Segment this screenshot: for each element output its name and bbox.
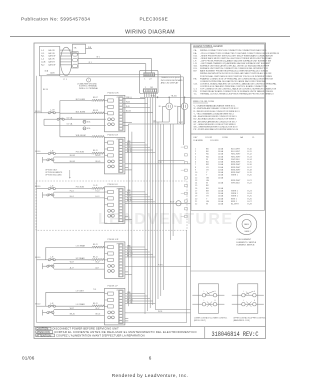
wire lower oven feed [44,124,106,126]
terminal pad 3 [73,64,78,67]
svg-text:ATTENTION:: ATTENTION: [36,333,52,337]
svg-text:14GA: 14GA [218,197,224,200]
relay contacts crossed circles [108,265,111,268]
svg-text:BK 45: BK 45 [127,151,132,153]
svg-text:-07: -07 [149,79,152,81]
svg-text:BAKE: BAKE [244,223,250,226]
svg-text:BK 24: BK 24 [127,302,132,304]
lamp return bus lower [128,123,184,125]
svg-text:BU - BLUE/AZUL/BLEU CONDUCTOR: BU - BLUE/AZUL/BLEU CONDUCTOR WIRE 6 [194,118,237,121]
connector P1 pin list box [39,46,59,75]
lamp feed leads [168,97,170,103]
svg-text:Publication No: 5995457834: Publication No: 5995457834 [21,17,90,22]
oven lamp DL2 [181,103,188,110]
surface switch lower [47,265,49,267]
junction dot lamp 2 tap [184,97,185,98]
svg-text:14GA: 14GA [218,148,224,151]
wire CA N rail [47,74,181,76]
wire CA R rail [60,76,184,78]
svg-text:C.B.: C.B. [194,83,198,85]
svg-text:CORTAR EL CORIENTE ANTES DE RE: CORTAR EL CORIENTE ANTES DE REALIZAR EL … [54,330,197,334]
rail down right 1 [179,75,181,125]
svg-text:14GA: 14GA [218,189,224,192]
relay contacts crossed circles [108,209,111,212]
svg-text:F.A.: F.A. [194,52,198,55]
svg-text:BK 27: BK 27 [127,255,132,257]
svg-text:WIRING CONNECTOR-PLUG CONNECTI: WIRING CONNECTOR-PLUG CONNECTION CONNECT… [200,49,267,52]
svg-text:12GA: 12GA [218,158,224,161]
diagram outer border [34,43,266,339]
svg-text:THERMAL CUTOUT-TERMICO-RUPTEUR: THERMAL CUTOUT-TERMICO-RUPTEUR THERMIQUE… [200,93,274,96]
header rule [10,36,290,38]
svg-text:P24 BK U.R: P24 BK U.R [108,239,119,241]
svg-text:T-11: T-11 [93,289,96,291]
svg-text:CO CA: CO CA [67,116,73,119]
svg-text:BK-10: BK-10 [35,111,40,113]
caution box divider [204,327,206,339]
svg-text:ATENCION:: ATENCION: [36,330,50,334]
svg-text:W 1: W 1 [97,57,100,59]
grounding lug G1 [83,120,86,123]
svg-text:WIRE 1: WIRE 1 [231,175,239,177]
svg-text:COLOR: COLOR [205,137,213,139]
relay contacts crossed circles [108,311,111,314]
svg-text:BU-45: BU-45 [126,111,131,113]
svg-text:WIRE & CU TERMINAL: WIRE & CU TERMINAL [79,87,98,90]
machine ground symbol T [87,78,91,82]
svg-text:L.R. REAR: L.R. REAR [76,244,86,247]
svg-text:SURFACE UNIT INDICATOR LIGHT-A: SURFACE UNIT INDICATOR LIGHT-ALL UNITS L… [200,65,270,68]
svg-text:E-LO: E-LO [96,196,101,198]
svg-text:P24 BU L.R: P24 BU L.R [108,135,119,137]
wire pin row [60,58,72,60]
surface switch lower [47,312,49,314]
svg-text:BK-10: BK-10 [35,151,40,153]
svg-text:14GA: 14GA [218,150,224,153]
svg-text:6: 6 [149,356,152,361]
svg-text:- LEFT REAR-TRASERO IZQ-ARRIER: - LEFT REAR-TRASERO IZQ-ARRIERE GAUCHE S… [200,62,271,65]
svg-text:FRAMING CONNECTION OF PRINCIPA: FRAMING CONNECTION OF PRINCIPAL DE CONEX… [200,77,274,80]
svg-text:W: W [206,204,208,206]
svg-text:14GA: 14GA [218,187,224,190]
svg-text:TB-100: TB-100 [171,95,177,97]
svg-text:318046814 REV:C: 318046814 REV:C [212,331,259,339]
wire pin row [60,61,72,63]
svg-text:BK-11: BK-11 [93,150,98,152]
svg-text:W-17: W-17 [96,262,100,264]
svg-text:OPTION INCLUDED: OPTION INCLUDED [45,174,62,176]
relay contacts crossed circles [108,160,111,163]
svg-text:L-OV: L-OV [50,110,55,112]
svg-text:T.B.: T.B. [74,47,78,49]
wire TB-2 to EOC pin [78,58,152,60]
svg-text:CA N W: CA N W [48,55,55,58]
svg-text:B.P.: B.P. [194,71,198,73]
svg-text:H: H [254,291,255,293]
wire color code box [191,98,265,134]
rail down right 2 [182,77,184,145]
convection motor M1 double circle [236,214,256,234]
terminal pad strip [72,52,79,69]
grounding lug G2 [83,127,86,130]
upper oven door switch contacts detail box S2 [238,284,258,314]
surface switch lower [47,194,49,196]
terminal strip column [185,146,188,148]
wire pin row [60,49,72,51]
feed rail top [40,76,42,113]
svg-text:14GA: 14GA [218,182,224,185]
svg-text:BK-45: BK-45 [70,314,75,316]
svg-text:A-17: A-17 [96,266,100,269]
wire pin row [60,64,72,66]
svg-text:CODE: CODE [222,137,228,139]
svg-text:BL-WHT: BL-WHT [231,204,239,206]
svg-text:CA N R: CA N R [48,61,55,64]
wire long run [125,312,191,314]
svg-text:14GA: 14GA [218,171,224,174]
svg-text:(BAKE/BROIL CON): (BAKE/BROIL CON) [233,319,250,322]
svg-text:Y - YELLOW/AMARILLO/JAUNE WIR: Y - YELLOW/AMARILLO/JAUNE WIRE NO.4 [194,112,235,115]
wire rail 155 turn to right [155,309,190,311]
svg-text:W-17: W-17 [70,308,74,310]
svg-text:P.R. RUN: P.R. RUN [76,187,85,189]
svg-text:OL L: OL L [174,106,178,108]
lower oven door switch contacts detail box S1 [198,284,218,314]
terminal block assembly box [73,44,86,54]
svg-text:V - ORANGE/NARANJA/ORANGE WIR: V - ORANGE/NARANJA/ORANGE WIRE NO.1 [194,105,237,108]
svg-text:BK-11: BK-11 [93,303,98,305]
left rail pair [127,124,129,306]
svg-text:CONEXION PRINCIPAL DEL BASTIDO: CONEXION PRINCIPAL DEL BASTIDOR CADRE RA… [200,80,267,83]
EOC bottom connector strip [143,89,157,93]
switch detail section divider [191,270,266,272]
svg-text:BK-11: BK-11 [93,244,98,246]
svg-text:W-17: W-17 [70,262,74,264]
relay board 1 wiring [123,98,145,100]
svg-text:LOWER CONTACTS-LOWER CONTROL: LOWER CONTACTS-LOWER CONTROL [194,317,227,320]
svg-text:12GA: 12GA [218,161,224,164]
svg-text:COLORS: COLORS [210,140,219,142]
svg-text:CL-11: CL-11 [93,185,98,187]
svg-text:POSITION-ALL SWITCHES IN OFF P: POSITION-ALL SWITCHES IN OFF POSITION TO… [200,75,272,78]
svg-text:- RISER FROM FRONT SWITCH-LIGH: - RISER FROM FRONT SWITCH-LIGHT SW-UP RI… [200,54,273,57]
lamp return bus upper [153,121,169,123]
svg-text:- RISER RACK MICRO SWITCH-LIGH: - RISER RACK MICRO SWITCH-LIGHT SW-UT RI… [200,57,272,60]
svg-text:COUPEZ L'ALIMENTATION AVANT D': COUPEZ L'ALIMENTATION AVANT D'EFFECTUER … [56,333,145,337]
legend box [191,44,265,98]
svg-text:DISCONNECT POWER BEFORE SERVIC: DISCONNECT POWER BEFORE SERVICING UNIT [53,327,120,331]
oven door switch [57,118,59,120]
svg-text:CA N W: CA N W [48,64,55,67]
svg-text:101: 101 [150,87,153,89]
svg-text:A-17: A-17 [70,266,74,269]
svg-text:CA N: CA N [50,72,55,75]
svg-text:SURFACE UNIT SWITCH CONNECTION: SURFACE UNIT SWITCH CONNECTION CONEXION … [200,67,268,70]
svg-text:CAUTION:: CAUTION: [36,327,49,331]
svg-text:14GA: 14GA [218,174,224,177]
svg-text:1: 1 [145,87,146,89]
svg-text:1: 1 [144,79,145,81]
svg-text:WIRING DIAGRAM: WIRING DIAGRAM [125,30,175,36]
svg-text:P-LO: P-LO [70,190,75,192]
svg-text:P24 BU U.R: P24 BU U.R [108,93,119,95]
lower double oven section box bottom [37,322,187,324]
surface switch lower [47,159,49,161]
relay board 3 wiring [125,191,145,193]
wire crossing to terminal strip [158,160,185,162]
svg-text:POWER RELAY BOARD CONNECTION O: POWER RELAY BOARD CONNECTION OF SURFACE … [200,90,274,93]
svg-text:01/06: 01/06 [22,356,35,361]
left feed rail L1 [36,76,38,323]
svg-text:H: H [214,300,215,302]
svg-text:H: H [214,291,215,293]
lamp side drop DL2 [178,105,182,107]
svg-text:L2-B: L2-B [41,62,46,64]
right column divider [190,43,192,327]
svg-text:BR-18: BR-18 [93,110,98,112]
svg-text:Rendered by LeadVenture, Inc.: Rendered by LeadVenture, Inc. [112,373,189,379]
svg-text:BAKE 2: BAKE 2 [245,230,251,233]
svg-text:PR - PURPLE/MORADO/POURPRE WI: PR - PURPLE/MORADO/POURPRE WIRE NO.10 [194,128,240,131]
wire rail bundle [144,97,146,314]
svg-text:AND LED DISPLAY: AND LED DISPLAY [161,81,179,84]
svg-text:WHT-BLK: WHT-BLK [231,183,241,185]
svg-text:BK-10: BK-10 [35,186,40,188]
relay board 2 wiring [125,142,145,144]
svg-text:14GA: 14GA [218,195,224,198]
svg-text:BK 10: BK 10 [43,89,48,91]
wire long run [125,202,191,204]
svg-text:GY - GRAY/GRIS/GRIS CONDUCTOR: GY - GRAY/GRIS/GRIS CONDUCTOR WIRE 8 [194,123,237,126]
svg-text:T.C.: T.C. [194,94,198,96]
svg-text:CA 4 R: CA 4 R [48,58,55,61]
lower double oven section box right edge [186,230,188,322]
svg-text:BK - BLACK/NEGRO/NOIR CONDUCT: BK - BLACK/NEGRO/NOIR CONDUCTOR NO.5 [194,115,238,118]
svg-text:BU-45: BU-45 [70,155,75,157]
svg-text:PLEC30S9E: PLEC30S9E [140,17,169,22]
svg-text:UPPER CONTACTS-UPPER CONTROL: UPPER CONTACTS-UPPER CONTROL [233,317,266,320]
svg-text:W-45: W-45 [126,102,130,104]
svg-text:L.F. UNIT: L.F. UNIT [76,290,85,292]
lamp side drop DL1 [163,105,166,107]
wire long run [125,163,191,165]
svg-text:P24 BK L.F: P24 BK L.F [108,286,119,288]
svg-text:B L: B L [159,106,162,108]
oven lamp DL1 [166,103,173,110]
svg-text:WIRING SHOWN WITH DOOR IN CLOS: WIRING SHOWN WITH DOOR IN CLOSED-LATCHED… [200,72,272,75]
wire long run [125,265,191,267]
svg-text:E-LO: E-LO [70,196,75,198]
svg-text:P-LO: P-LO [96,190,101,192]
svg-text:CONTROL BOARD-TABLERO DE CONTR: CONTROL BOARD-TABLERO DE CONTROL-TABLEAU… [200,82,277,85]
svg-text:R-45: R-45 [126,106,130,108]
svg-text:BU-45: BU-45 [96,155,101,157]
wire TB-3 to EOC pin [78,63,146,65]
svg-text:P 271: P 271 [158,265,163,267]
svg-text:14GA: 14GA [218,203,224,206]
rail bundle from EOC [144,93,146,98]
electronic oven control EOC box [140,70,159,93]
wire from terminal box right [86,48,93,50]
svg-text:W-17: W-17 [96,308,100,310]
svg-text:10GA: 10GA [218,166,224,169]
lamp bottom leads [168,110,170,122]
junction dot lamp 1 tap [169,97,170,98]
relay board 4 wiring [125,246,145,248]
svg-text:COIL ELEMENT: COIL ELEMENT [237,239,252,241]
svg-text:BK-10: BK-10 [35,304,40,306]
svg-text:W - WHITE/BLANCO/BLANC CONDUC: W - WHITE/BLANCO/BLANC CONDUCTOR NO.2 [194,107,240,110]
relay board 5 wiring [125,293,145,295]
svg-text:W 24: W 24 [158,311,162,313]
svg-text:BAKE ELEMENT PROBE RECEPTACLE-: BAKE ELEMENT PROBE RECEPTACLE-LOWER RECE… [200,70,268,73]
svg-text:M.G.: M.G. [87,122,91,124]
svg-text:CO CA: CO CA [67,123,73,126]
svg-text:P24 BU L.F: P24 BU L.F [108,184,119,186]
svg-text:BR-17: BR-17 [93,97,98,99]
svg-text:L.F. REAR: L.F. REAR [76,303,85,306]
svg-text:INCLUDES KEYBOARD: INCLUDES KEYBOARD [161,79,183,82]
parts table box [191,134,265,210]
wire pin row [60,55,72,57]
option dashed box [36,181,187,230]
svg-text:BU-45: BU-45 [96,161,101,163]
EOC top connector strip [144,73,155,77]
svg-text:BK-45: BK-45 [96,314,101,316]
caution box top rule [34,326,266,328]
junction dot [157,97,158,98]
svg-text:W 74: W 74 [151,95,155,97]
svg-text:UP. REAR: UP. REAR [76,257,85,260]
svg-text:FLA WIRE: FLA WIRE [194,139,204,142]
svg-text:P.R. RUN: P.R. RUN [76,152,85,154]
terminal pad 1 [73,53,78,56]
svg-text:F.B.: F.B. [194,78,198,80]
svg-text:KEY: KEY [194,137,199,139]
terminal pad 2 [73,58,78,61]
svg-text:14GA: 14GA [218,192,224,195]
svg-text:- LEFT FRONT-FRENTE IZQ-AVANT: - LEFT FRONT-FRENTE IZQ-AVANT GAUCHE SUR… [200,59,271,62]
caution text spanish [36,331,53,334]
caution text english [36,327,51,330]
bus below EOC [140,96,191,98]
svg-text:Y 27: Y 27 [158,162,162,164]
buzzer B1 [176,201,181,206]
svg-text:BK 45: BK 45 [127,200,132,202]
svg-text:TOP CONNECTOR ON CONTROL-TABLE: TOP CONNECTOR ON CONTROL-TABLE DE CONTRO… [200,88,277,91]
relay contacts crossed circles [108,118,111,121]
cable harness oval [61,47,72,75]
svg-text:CA 4 N: CA 4 N [48,49,55,52]
svg-text:BR - BROWN/CAFE/BRUN CONDUCTO: BR - BROWN/CAFE/BRUN CONDUCTOR NO.7 [194,120,238,123]
svg-text:BK-11: BK-11 [93,256,98,258]
svg-text:14GA: 14GA [218,153,224,156]
wire pin row [60,52,72,54]
svg-text:ELEMENTO. SERP-B: ELEMENTO. SERP-B [237,242,257,244]
svg-text:BU-45: BU-45 [70,161,75,163]
caution text french [36,334,55,337]
svg-text:BK-10: BK-10 [35,257,40,259]
svg-text:M.G.: M.G. [87,128,91,130]
svg-text:CONTROLE DE TABLERO PRINCIPAL: CONTROLE DE TABLERO PRINCIPAL CONTROL BO… [200,85,268,88]
svg-text:14GA: 14GA [218,155,224,158]
svg-text:14GA: 14GA [218,200,224,203]
svg-text:10GA: 10GA [218,163,224,166]
svg-text:H: H [254,300,255,302]
svg-text:CA 3 N: CA 3 N [48,52,55,55]
svg-text:GND (-): GND (-) [126,97,132,99]
svg-text:W 27: W 27 [170,202,174,204]
svg-text:ELEMENT. SERP-B: ELEMENT. SERP-B [237,245,255,247]
svg-text:14GA: 14GA [218,176,224,179]
svg-text:10GA: 10GA [218,168,224,171]
svg-text:(BROIL ONLY): (BROIL ONLY) [194,320,206,322]
